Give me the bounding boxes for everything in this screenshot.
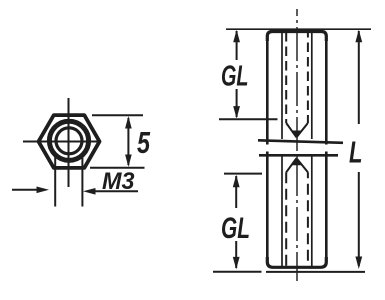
dimension GL top: thread depth extension line xyxy=(219,118,278,120)
svg-text:M3: M3 xyxy=(102,168,135,195)
lower drill hole hidden line right xyxy=(307,172,309,266)
dimension S: top extension line xyxy=(92,114,143,116)
dimension L: dimension line with arrows xyxy=(355,30,362,269)
dimension GL bottom: dimension line with arrows xyxy=(233,175,240,270)
thread major circle xyxy=(49,121,88,160)
upper thread major hidden line left xyxy=(281,32,283,139)
lower thread major hidden line left xyxy=(281,156,283,267)
dimension GL top: dimension line with arrows xyxy=(233,30,240,119)
side view: upper left wall xyxy=(266,40,269,145)
upper drill hole hidden line right xyxy=(307,32,309,123)
hex body outline xyxy=(39,115,100,168)
dimension S: bottom extension line xyxy=(90,167,145,169)
upper drill point cone xyxy=(286,123,308,137)
side view: upper right wall xyxy=(325,40,328,145)
upper thread major hidden line right xyxy=(311,32,313,139)
dimension S: dimension line with arrows xyxy=(125,116,132,167)
lower drill point cone xyxy=(286,158,308,172)
lower drill hole hidden line left xyxy=(285,172,287,266)
svg-text:L: L xyxy=(349,135,363,170)
side view: top extension line xyxy=(226,28,371,30)
svg-text:GL: GL xyxy=(221,212,250,245)
side view: bottom face xyxy=(267,257,326,267)
side view: top face xyxy=(267,32,326,42)
dimension M3: left arrow xyxy=(12,187,49,194)
upper drill hole hidden line left xyxy=(285,32,287,123)
lower thread major hidden line right xyxy=(311,156,313,267)
dimension GL bottom: thread depth extension line xyxy=(224,173,262,175)
side view: lower left wall xyxy=(266,152,269,260)
side view: bottom extension line xyxy=(213,271,262,273)
side view: upper break line xyxy=(258,140,343,143)
end view: vertical centerline xyxy=(68,98,70,187)
end view: horizontal centerline xyxy=(23,141,100,143)
side view: lower break line xyxy=(259,154,338,157)
side view: lower right wall xyxy=(325,152,328,260)
svg-text:5: 5 xyxy=(137,125,151,160)
thread dia extension line right xyxy=(81,155,83,207)
side view: centerline xyxy=(296,9,298,281)
dimension M3: leader line with arrow xyxy=(83,188,138,195)
side view: bottom extension line right part xyxy=(266,271,365,273)
thread dia extension line left xyxy=(54,155,56,207)
tap drill circle xyxy=(56,128,82,154)
svg-text:GL: GL xyxy=(221,61,249,93)
